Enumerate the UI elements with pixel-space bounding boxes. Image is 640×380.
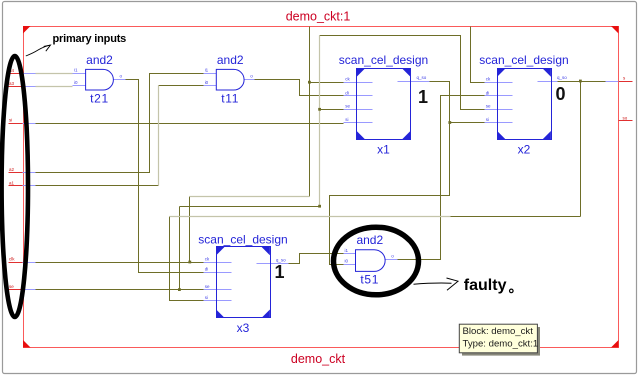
svg-text:faulty: faulty (464, 277, 507, 294)
svg-text:demo_ckt: demo_ckt (291, 352, 346, 366)
svg-text:si: si (205, 295, 208, 300)
svg-text:o: o (120, 73, 123, 78)
svg-text:si: si (9, 118, 12, 123)
svg-text:di: di (205, 266, 209, 271)
svg-text:primary inputs: primary inputs (53, 33, 127, 45)
svg-text:ck: ck (205, 256, 210, 261)
svg-text:i0: i0 (345, 259, 349, 264)
svg-text:i0: i0 (205, 80, 209, 85)
svg-text:x1: x1 (377, 143, 390, 157)
svg-text:and2: and2 (356, 233, 383, 247)
svg-text:ck: ck (345, 77, 350, 82)
svg-text:t21: t21 (90, 91, 109, 105)
svg-text:i1: i1 (74, 68, 78, 73)
svg-text:Block: demo_ckt: Block: demo_ckt (463, 326, 534, 337)
svg-text:Type: demo_ckt:1: Type: demo_ckt:1 (463, 339, 539, 350)
svg-text:x3: x3 (237, 321, 250, 335)
svg-text:t11: t11 (221, 91, 239, 105)
svg-text:scan_cel_design: scan_cel_design (339, 53, 428, 67)
svg-text:i0: i0 (74, 80, 78, 85)
svg-text:di: di (486, 90, 490, 95)
svg-text:a2: a2 (9, 167, 15, 172)
svg-text:se: se (9, 284, 14, 289)
svg-text:i1: i1 (205, 68, 209, 73)
svg-text:1: 1 (275, 262, 285, 282)
svg-text:and2: and2 (86, 53, 113, 67)
svg-text:se: se (345, 104, 350, 109)
svg-text:ck: ck (486, 77, 491, 82)
svg-text:clk: clk (9, 257, 15, 262)
svg-text:si: si (345, 117, 348, 122)
svg-text:so: so (623, 115, 628, 120)
svg-text:a1: a1 (9, 180, 15, 185)
svg-text:o: o (250, 73, 253, 78)
svg-text:o: o (391, 254, 394, 259)
svg-text:i1: i1 (345, 248, 349, 253)
svg-text:and2: and2 (217, 53, 244, 67)
svg-text:demo_ckt:1: demo_ckt:1 (286, 9, 351, 23)
svg-text:se: se (205, 284, 210, 289)
svg-text:si: si (486, 117, 489, 122)
svg-text:scan_cel_design: scan_cel_design (198, 232, 287, 246)
svg-text:t51: t51 (360, 273, 379, 287)
svg-text:x2: x2 (518, 143, 531, 157)
svg-text:q_so: q_so (417, 75, 427, 80)
svg-text:di: di (345, 90, 349, 95)
svg-text:scan_cel_design: scan_cel_design (479, 53, 568, 67)
svg-text:1: 1 (418, 87, 428, 107)
svg-text:se: se (486, 104, 491, 109)
svg-text:q_so: q_so (557, 75, 567, 80)
svg-text:s: s (623, 76, 626, 81)
svg-text:0: 0 (556, 84, 566, 104)
svg-text:a3: a3 (9, 81, 15, 86)
